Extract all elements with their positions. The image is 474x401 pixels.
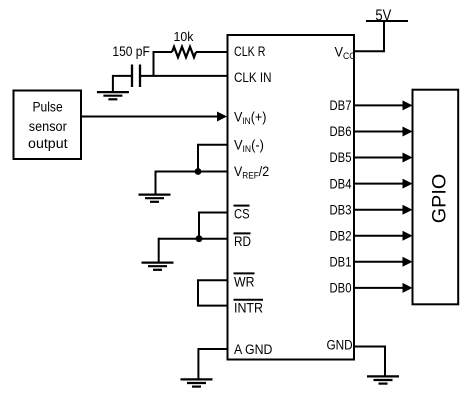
label 150 pF (112, 44, 149, 59)
capacitor C1 150 pF (132, 65, 140, 88)
wire capacitor left plate to ground (113, 76, 131, 92)
svg-text:GPIO: GPIO (429, 174, 451, 224)
pin RD label with overbar (234, 233, 252, 249)
pin DB0 label (330, 281, 352, 296)
svg-text:output: output (28, 136, 68, 151)
svg-text:RD: RD (234, 234, 251, 249)
pin CLK R label (234, 44, 266, 59)
svg-text:DB0: DB0 (330, 281, 352, 296)
label 5V (375, 7, 391, 24)
wire arrow DB5 to GPIO (354, 153, 413, 163)
wire A GND to ground (198, 349, 227, 379)
pin DB6 label (330, 124, 352, 139)
resistor R1 10k (172, 47, 196, 58)
svg-text:A GND: A GND (234, 342, 273, 357)
pin DB7 label (330, 98, 352, 113)
pin DB4 label (330, 176, 352, 191)
wire GND to ground (354, 347, 385, 376)
svg-text:150 pF: 150 pF (112, 44, 149, 59)
wire VIN(-) stub (198, 145, 228, 172)
svg-text:DB6: DB6 (330, 124, 352, 139)
wire arrow DB1 to GPIO (354, 257, 413, 267)
svg-text:DB7: DB7 (330, 98, 352, 113)
label 10k (174, 29, 194, 44)
wire RD stub (159, 238, 228, 240)
op-amp U1 ADC body (228, 35, 355, 360)
svg-text:DB3: DB3 (330, 202, 352, 217)
pin INTR label with overbar (234, 300, 264, 316)
pin CS label with overbar (234, 206, 250, 222)
pin DB1 label (330, 254, 352, 269)
svg-text:CS: CS (234, 207, 250, 222)
svg-text:VIN(+): VIN(+) (234, 109, 266, 126)
svg-text:CLK IN: CLK IN (234, 70, 272, 85)
svg-text:5V: 5V (375, 7, 391, 24)
wire arrow DB7 to GPIO (354, 100, 413, 110)
wire vertical resistor junction down to CLK IN net (153, 51, 155, 76)
pin WR label with overbar (234, 273, 255, 289)
wire arrow DB3 to GPIO (354, 205, 413, 215)
wire VREF/2 to ground (155, 171, 157, 195)
svg-text:INTR: INTR (234, 301, 263, 316)
svg-text:Pulse: Pulse (32, 100, 62, 115)
wire arrow DB4 to GPIO (354, 179, 413, 189)
wire arrow DB0 to GPIO (354, 283, 413, 293)
svg-text:DB2: DB2 (330, 228, 352, 243)
wire CS stub (199, 213, 228, 239)
svg-text:WR: WR (234, 274, 255, 289)
junction node CS/RD (196, 235, 203, 242)
pin VCC label (335, 44, 356, 61)
wire WR-INTR tie bracket (198, 280, 228, 305)
GPIO box (413, 90, 459, 305)
wire resistor to CLK R pin (196, 51, 228, 53)
wire VCC to 5V rail (354, 22, 384, 51)
svg-text:CLK R: CLK R (234, 44, 266, 59)
pin CLK IN label (234, 70, 272, 85)
junction node VIN(-)/VREF/2 (195, 168, 202, 175)
svg-text:10k: 10k (174, 29, 194, 44)
pin VIN(+) label (234, 109, 266, 126)
wire arrow DB2 to GPIO (354, 231, 413, 241)
ground symbol (capacitor) (97, 92, 129, 99)
ground symbol (VREF/2) (139, 195, 171, 202)
wire arrow pulse sensor to VIN(+) (81, 112, 227, 122)
ground symbol (GND) (367, 376, 399, 383)
pin A GND label (234, 342, 273, 357)
ground symbol (RD) (142, 263, 174, 270)
ground symbol (A GND) (181, 379, 213, 386)
pin VIN(-) label (234, 137, 264, 154)
svg-text:DB1: DB1 (330, 254, 352, 269)
svg-text:sensor: sensor (29, 119, 67, 134)
pin GND label (327, 337, 353, 352)
svg-text:DB4: DB4 (330, 176, 352, 191)
svg-text:GND: GND (327, 337, 353, 352)
power rail 5V bar (366, 20, 408, 22)
pin DB5 label (330, 150, 352, 165)
wire CLK IN from capacitor to pin (140, 75, 228, 77)
wire VREF/2 stub (156, 171, 228, 173)
wire RD to ground (158, 238, 160, 262)
wire CLK R left stub (154, 51, 173, 53)
svg-text:DB5: DB5 (330, 150, 352, 165)
pin DB2 label (330, 228, 352, 243)
pin VREF/2 label (234, 163, 269, 180)
pulse sensor output box (14, 91, 82, 160)
pin DB3 label (330, 202, 352, 217)
wire arrow DB6 to GPIO (354, 127, 413, 137)
